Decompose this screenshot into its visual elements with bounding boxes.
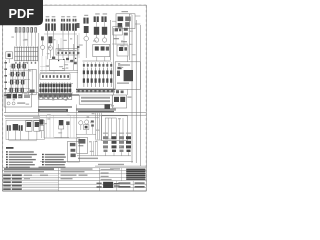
stack valve SK4 lower right <box>126 133 131 156</box>
directional valve DV12 left grid <box>19 88 24 96</box>
dense label band mid <box>38 106 116 112</box>
valve V12 center low small <box>66 121 69 138</box>
double solenoid valve SV3 top row <box>61 16 66 36</box>
directional valve DV7 left grid <box>8 80 13 88</box>
tank box lower right left side <box>77 138 88 154</box>
company logo black box <box>103 182 113 188</box>
directional valve DV10 left grid <box>8 88 13 96</box>
wire stems from SV1 SV2 down to junction <box>48 37 54 60</box>
drawing number cells <box>97 182 145 187</box>
solenoid valve SV8 column <box>101 13 107 42</box>
controller box U1 top right <box>112 11 140 29</box>
double solenoid valve SV1 top row <box>45 16 50 36</box>
wires center pairs down <box>44 34 77 62</box>
wire horizontal rails mid page <box>4 113 146 118</box>
comb base tick row <box>15 62 36 64</box>
stack valve SK3 lower right <box>119 133 124 156</box>
valve box VB2 right column <box>112 95 131 108</box>
double solenoid valve SV4 top row <box>66 16 71 36</box>
filter F1 small box left <box>6 52 13 63</box>
valve bank B2 left rails <box>40 70 78 72</box>
directional valve DV4 left grid <box>9 72 14 80</box>
double solenoid valve SV5 top row <box>72 16 77 36</box>
valve bank B2 left comb section <box>39 83 73 94</box>
terminal box TB1 center right <box>79 95 112 104</box>
valve manifold box under SV7 SV8 <box>93 44 110 61</box>
small marks right of pumps <box>76 104 96 137</box>
gauge row center units <box>38 94 72 100</box>
valve V11 center low <box>58 120 63 138</box>
directional valve DV2 left grid <box>15 64 20 72</box>
wire rails lower left <box>5 117 40 119</box>
pump P2 with motor <box>84 120 89 134</box>
stack valve SK2 lower right <box>111 133 116 156</box>
title block horizontal rules <box>3 168 147 191</box>
valve bank B1 upper left comb <box>14 47 38 62</box>
notes text lines left column <box>6 151 37 168</box>
power unit box PU1 left <box>4 93 31 108</box>
valve V10 lower left tall <box>34 121 40 140</box>
junction box JB1 center <box>40 56 78 74</box>
cylinder C1 tall rect left <box>28 69 36 94</box>
tank outer box right <box>102 116 128 141</box>
wire web texture left cluster <box>11 64 29 92</box>
title block vertical dividers <box>59 168 134 191</box>
valve V7 lower left center block <box>13 124 18 140</box>
wire drops from manifold row <box>16 33 36 46</box>
valve V6 lower left small <box>7 125 11 140</box>
accumulator box AB1 right <box>115 56 140 95</box>
directional valve DV8 left grid <box>14 80 19 88</box>
wire collector line center low <box>44 131 80 138</box>
logo side text <box>114 183 120 187</box>
valve bank B2 right top rail <box>83 61 113 68</box>
title block top text rows <box>4 168 93 172</box>
stack valve SK1 lower right <box>103 133 108 156</box>
notes header <box>6 147 14 149</box>
notes text lines right column <box>39 154 66 168</box>
pressure switch PS1 right strip <box>113 27 128 36</box>
solenoid valve SV6 with relief <box>77 15 89 58</box>
wire vertical bus lines center <box>39 33 77 116</box>
directional valve DV5 left grid <box>14 72 19 80</box>
junction dots center <box>58 58 76 62</box>
valve bank B2 left label strip <box>38 94 79 98</box>
wire verticals center low area <box>47 115 75 137</box>
solenoid S9 center low <box>39 119 44 138</box>
left rail tick marks <box>4 60 7 113</box>
scale cell text <box>61 169 114 180</box>
valve V9 lower left tall <box>26 121 32 140</box>
svg-text:PDF: PDF <box>8 6 34 21</box>
title row text left of address <box>98 164 124 170</box>
directional valve DV11 left grid <box>13 88 18 96</box>
wire vertical bus lines right side <box>111 14 141 166</box>
mini manifold band center <box>56 38 78 55</box>
drawing border frame <box>3 5 147 191</box>
wire bundle vertical right center <box>92 113 102 156</box>
valve V8 lower left small <box>19 125 23 140</box>
filter block F2 below band <box>105 105 115 110</box>
cluster bottom lines and text <box>40 156 146 166</box>
directional valve DV6 left grid <box>20 72 25 80</box>
valve bank B2 flat manifold box <box>40 74 70 80</box>
directional valve DV9 left grid <box>19 80 24 88</box>
pump P1 circle <box>79 121 83 130</box>
valve bank B2 bottom label band <box>76 89 115 93</box>
directional valve DV1 left grid <box>10 64 15 72</box>
address text block dark <box>126 169 145 180</box>
enclosure box lower left group <box>6 120 44 141</box>
PDF badge <box>0 0 43 25</box>
manifold block row under badge <box>15 27 37 32</box>
panel box right of notes <box>54 137 79 162</box>
check valve CV2 small <box>41 36 45 56</box>
double solenoid valve SV2 top row <box>51 16 56 36</box>
revision table text left <box>3 174 58 190</box>
directional valve DV3 left grid <box>21 64 26 72</box>
solenoid valve SV7 column <box>94 13 100 42</box>
valve bank B2 right comb section <box>83 68 112 87</box>
tank inner box right <box>105 118 123 141</box>
check valve CV1 with spring <box>48 36 52 58</box>
reference designator labels scattered <box>11 31 135 152</box>
gauge G2 right strip <box>112 35 128 56</box>
wire mesh left cluster <box>8 71 38 93</box>
